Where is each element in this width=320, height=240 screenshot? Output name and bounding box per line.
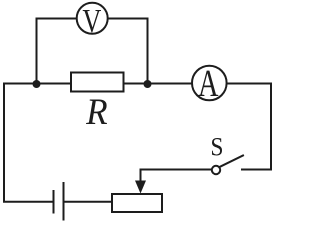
- ammeter label A: [198, 71, 218, 96]
- rheostat wiper arrow head: [135, 181, 146, 194]
- switch S pivot circle: [212, 166, 220, 174]
- battery long plate: [63, 183, 65, 220]
- wire main horizontal left (corner to resistor): [4, 83, 71, 85]
- voltmeter U1 circle: [77, 3, 108, 34]
- wire voltmeter branch right (voltmeter to junction): [109, 19, 148, 84]
- wire switch to rheostat wiper: [141, 170, 212, 182]
- rheostat box: [112, 194, 162, 212]
- switch S lever: [220, 156, 244, 168]
- wire battery to left corner and up left side: [4, 84, 54, 202]
- battery short plate: [53, 191, 55, 213]
- label R: [86, 100, 107, 125]
- wire resistor to ammeter: [124, 83, 192, 85]
- wire ammeter to right side down: [228, 84, 272, 170]
- node junction dot right: [144, 80, 152, 88]
- resistor R box: [71, 73, 124, 92]
- voltmeter label V: [83, 10, 101, 33]
- ammeter U2 circle: [192, 66, 227, 101]
- switch label S: [212, 138, 222, 156]
- node junction dot left: [33, 80, 41, 88]
- wire rheostat to battery: [64, 201, 113, 203]
- wire voltmeter branch left (junction to voltmeter): [37, 19, 77, 85]
